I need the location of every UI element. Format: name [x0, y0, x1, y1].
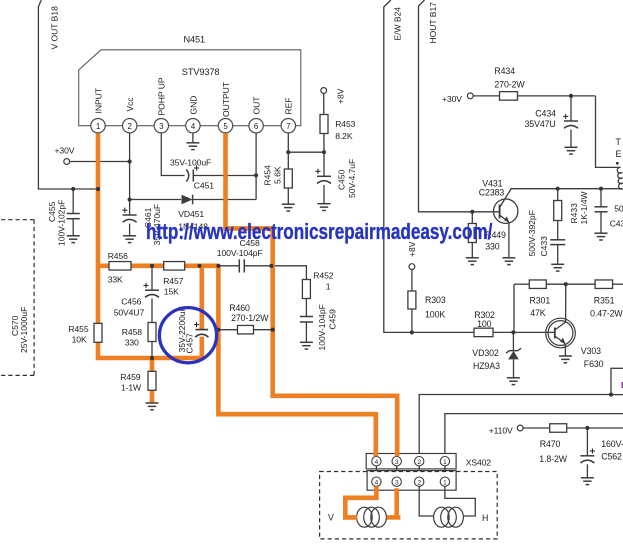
ground C461	[123, 236, 136, 243]
node C458 left (on orange)	[216, 264, 220, 268]
IC pin 2 (Vcc)	[123, 97, 137, 133]
svg-text:1.8-2W: 1.8-2W	[539, 454, 568, 464]
svg-text:1: 1	[326, 282, 331, 292]
svg-text:1: 1	[443, 480, 447, 487]
resistor R452	[271, 266, 333, 317]
svg-text:C450: C450	[337, 169, 347, 190]
wire +30V to Vcc	[70, 161, 130, 163]
ground VD302	[507, 378, 520, 385]
svg-text:Vcc: Vcc	[125, 97, 135, 112]
svg-text:OUT: OUT	[252, 97, 262, 115]
svg-text:N451: N451	[184, 35, 206, 45]
ground R454	[282, 204, 295, 211]
wire XS402 pin2 to module	[419, 395, 611, 457]
wire pin1 highlighted path (orange)	[98, 133, 202, 358]
node C451/pin6 junction	[254, 173, 258, 177]
svg-text:INPUT: INPUT	[93, 88, 103, 114]
ground R459	[146, 403, 159, 410]
svg-text:V: V	[328, 513, 334, 523]
blue highlight circle around C457	[159, 308, 216, 363]
wire XS402 pin1 row	[445, 414, 623, 457]
wire pin5 OUTPUT to XS402 pin3 (orange)	[226, 133, 398, 456]
capacitor C455	[47, 189, 80, 246]
node feedback/C455 junction	[71, 187, 75, 191]
svg-text:100V-102pF: 100V-102pF	[57, 200, 67, 246]
transistor V431	[479, 179, 518, 258]
watermark URL	[146, 220, 493, 245]
svg-text:500V-392pF: 500V-392pF	[527, 210, 537, 256]
node C432 junction	[599, 187, 603, 191]
capacitor C434	[525, 96, 579, 147]
svg-text:2: 2	[417, 480, 421, 487]
svg-text:+8V: +8V	[336, 88, 346, 104]
ground pin4 GND	[186, 133, 199, 149]
connector XS402	[366, 454, 491, 469]
wire connector pin links	[376, 466, 445, 477]
capacitor C433	[527, 210, 565, 264]
svg-text:2: 2	[417, 459, 421, 466]
svg-text:VD302: VD302	[472, 348, 499, 358]
svg-text:5: 5	[223, 122, 228, 131]
svg-text:POHP UP: POHP UP	[157, 77, 167, 115]
resistor R459 (in orange path)	[120, 371, 156, 392]
ground V303 emitter	[559, 356, 572, 363]
wire V303 collector	[565, 284, 567, 322]
svg-text:+30V: +30V	[55, 146, 75, 156]
svg-text:V303: V303	[581, 346, 601, 356]
resistor R454	[263, 152, 293, 204]
node R456/R457 junction (on orange)	[150, 264, 154, 268]
terminal +8V lower	[407, 241, 417, 269]
wire C457 bottom lead (orange)	[200, 337, 205, 358]
svg-text:C456: C456	[121, 297, 141, 307]
label net V OUT B18	[50, 6, 60, 50]
svg-text:R456: R456	[108, 251, 128, 261]
resistor R301	[529, 280, 550, 318]
svg-text:E/W B24: E/W B24	[393, 7, 403, 41]
node R458/R459 junction (on orange)	[150, 356, 154, 360]
V deflection coil	[328, 507, 386, 527]
node C434 junction	[569, 94, 573, 98]
svg-text:R301: R301	[530, 296, 551, 306]
resistor R458	[122, 323, 156, 359]
svg-text:4: 4	[191, 122, 196, 131]
dashed box C570	[0, 220, 34, 376]
svg-text:R459: R459	[120, 372, 140, 382]
ground C562	[581, 478, 594, 485]
capacitor C457	[177, 306, 209, 353]
svg-text:R460: R460	[229, 303, 250, 313]
svg-text:2: 2	[128, 122, 133, 131]
svg-text:100: 100	[477, 319, 492, 329]
ground C433	[551, 264, 564, 271]
svg-text:R351: R351	[594, 296, 615, 306]
ground C459	[300, 342, 313, 349]
wire base row	[412, 331, 514, 333]
capacitor C562	[580, 428, 623, 478]
IC pin 7 (REF)	[281, 98, 295, 133]
svg-text:35V47U: 35V47U	[525, 119, 556, 129]
svg-text:8.2K: 8.2K	[335, 131, 353, 141]
node Vcc/+30V junction	[128, 159, 132, 163]
resistor R351	[590, 280, 623, 319]
node C458 right (on orange)	[269, 264, 273, 268]
wire yoke V path (orange)	[345, 486, 400, 517]
svg-text:R470: R470	[540, 439, 561, 449]
wire pin6 lead	[255, 133, 257, 199]
IC pin 5 (OUTPUT)	[218, 82, 232, 133]
ground C432	[595, 233, 608, 240]
svg-text:0.47-2W: 0.47-2W	[590, 309, 623, 319]
svg-text:+30V: +30V	[442, 94, 462, 104]
svg-text:R453: R453	[335, 119, 355, 129]
svg-text:C433: C433	[539, 236, 549, 257]
wire C458-left to XS402 pin4 (orange)	[218, 266, 375, 456]
node base/VD302 junction	[511, 330, 515, 334]
svg-text:1K-1/4W: 1K-1/4W	[579, 191, 589, 224]
IC pin 4 (GND)	[186, 96, 200, 133]
svg-text:100V-104pF: 100V-104pF	[317, 304, 327, 350]
svg-text:160V-1: 160V-1	[601, 439, 623, 449]
svg-text:25V-1000uF: 25V-1000uF	[19, 307, 29, 353]
resistor R470	[539, 424, 568, 464]
svg-text:3: 3	[395, 480, 399, 487]
node R449 junction	[470, 210, 474, 214]
ground R449	[466, 258, 479, 265]
svg-text:100K: 100K	[425, 310, 445, 320]
svg-text:REF: REF	[284, 98, 294, 115]
resistor R434	[494, 66, 525, 100]
svg-text:100V-104pF: 100V-104pF	[217, 248, 263, 258]
transistor V303	[546, 318, 604, 369]
svg-text:R454: R454	[263, 165, 273, 186]
wire V OUT feedback line from pin B18	[38, 0, 98, 189]
svg-text:R433: R433	[569, 203, 579, 224]
svg-text:6: 6	[254, 122, 259, 131]
capacitor C451	[170, 158, 256, 191]
wire H yoke path	[419, 486, 475, 516]
terminal +30V right	[442, 93, 473, 104]
svg-text:H: H	[482, 513, 488, 523]
svg-text:STV9378: STV9378	[182, 67, 220, 77]
node C562 junction	[585, 426, 589, 430]
svg-text:+110V: +110V	[489, 425, 513, 435]
svg-text:4: 4	[375, 459, 379, 466]
terminal +8V	[321, 88, 346, 104]
wire base to V303	[513, 331, 554, 333]
resistor R302	[474, 310, 495, 337]
node R457 right (on orange)	[197, 264, 201, 268]
svg-text:HOUT B17: HOUT B17	[428, 2, 438, 44]
node feedback junction (on orange)	[96, 187, 100, 191]
resistor R456 body	[108, 251, 131, 285]
svg-text:270-1/2W: 270-1/2W	[231, 313, 269, 323]
svg-text:C451: C451	[194, 181, 214, 191]
svg-text:C562: C562	[601, 452, 622, 462]
svg-text:R458: R458	[122, 327, 142, 337]
svg-text:35V-100uF: 35V-100uF	[170, 158, 211, 168]
svg-text:C432: C432	[610, 219, 623, 229]
svg-text:7: 7	[286, 122, 291, 131]
wire to transformer T	[596, 96, 621, 167]
zener diode VD302	[472, 332, 521, 377]
svg-text:330: 330	[125, 337, 139, 347]
capacitor C458	[217, 238, 263, 273]
wire E/W B24 line	[384, 0, 412, 332]
svg-text:1-1W: 1-1W	[121, 383, 142, 393]
svg-text:50V4U7: 50V4U7	[114, 307, 145, 317]
svg-text:OUTPUT: OUTPUT	[221, 82, 231, 117]
svg-text:1: 1	[443, 459, 447, 466]
svg-text:33K: 33K	[108, 275, 123, 285]
node R456/R457 junction	[150, 264, 154, 268]
svg-text:5.6K: 5.6K	[273, 166, 283, 184]
wire R459 branch (orange)	[150, 358, 155, 403]
wire C457 top lead (orange)	[200, 266, 205, 330]
svg-text:F630: F630	[584, 359, 604, 369]
IC pin 6 (OUT)	[249, 97, 263, 133]
svg-text:1: 1	[96, 122, 101, 131]
ground V431 emitter	[502, 258, 515, 265]
module box (cut at edge)	[611, 368, 623, 394]
svg-text:C434: C434	[535, 108, 556, 118]
svg-text:R434: R434	[494, 66, 515, 76]
node R460 left (on orange)	[216, 328, 220, 332]
dashed yoke box	[320, 472, 498, 539]
svg-text:10K: 10K	[72, 334, 87, 344]
label net HOUT B17	[428, 2, 438, 44]
capacitor C432	[595, 189, 623, 234]
label net E/W B24	[393, 7, 403, 41]
IC pin 3 (POHP UP)	[154, 77, 168, 133]
capacitor C459	[300, 304, 338, 350]
svg-text:R452: R452	[313, 270, 333, 280]
svg-text:http://www.electronicsrepairma: http://www.electronicsrepairmadeasy.com/	[146, 220, 493, 245]
node module junction	[609, 393, 613, 397]
svg-text:C457: C457	[184, 333, 194, 354]
node R433 junction	[556, 187, 560, 191]
wire R301 row	[514, 284, 623, 332]
ground C434	[565, 147, 578, 154]
svg-text:C2383: C2383	[479, 188, 505, 198]
svg-text:V OUT B18: V OUT B18	[50, 6, 60, 50]
IC N451 outline	[79, 35, 301, 126]
svg-text:R457: R457	[163, 276, 183, 286]
H deflection coil	[434, 507, 489, 527]
wire C458 leads	[218, 265, 271, 267]
node V303 collector junction	[564, 282, 568, 286]
wire +110V row	[523, 427, 623, 429]
IC pin 1 (INPUT)	[91, 88, 105, 133]
ground C455	[67, 236, 80, 243]
node R457 right	[197, 264, 201, 268]
capacitor C456	[114, 266, 159, 323]
wire pin7 REF lead	[288, 133, 324, 152]
node R453/C450	[322, 150, 326, 154]
node diode anode junction	[128, 197, 132, 201]
svg-text:C459: C459	[327, 309, 337, 330]
node pin7/R454	[286, 150, 290, 154]
resistor R303	[408, 270, 446, 333]
resistor R457 body	[163, 262, 185, 297]
svg-text:GND: GND	[188, 96, 198, 115]
node C458 left	[216, 264, 220, 268]
wire +30V row	[473, 95, 595, 97]
svg-text:4: 4	[375, 480, 379, 487]
terminal +110V	[489, 425, 523, 435]
resistor R453	[320, 93, 356, 152]
svg-text:270-2W: 270-2W	[494, 80, 525, 90]
svg-text:C455: C455	[47, 201, 57, 222]
svg-text:T: T	[616, 137, 622, 147]
resistor R460	[218, 303, 272, 334]
connector yoke plug	[367, 471, 456, 491]
svg-text:50: 50	[614, 204, 623, 214]
wire HOUT B17 line	[419, 0, 500, 212]
wire V431 collector row	[511, 188, 623, 190]
svg-text:E: E	[616, 149, 622, 159]
svg-text:R455: R455	[68, 324, 88, 334]
transformer winding (cut at edge)	[616, 137, 623, 189]
resistor R449	[468, 212, 506, 258]
node C458 right / pin5 wire	[269, 264, 273, 268]
svg-text:15K: 15K	[164, 287, 179, 297]
ground C450	[318, 204, 331, 211]
resistor R455 (in orange path)	[68, 323, 102, 344]
svg-text:VD451: VD451	[178, 209, 204, 219]
svg-text:3: 3	[395, 459, 399, 466]
terminal +30V left	[55, 146, 75, 165]
node R303/R302/E-W junction	[410, 330, 414, 334]
svg-text:HZ9A3: HZ9A3	[473, 361, 500, 371]
svg-text:XS402: XS402	[466, 458, 492, 468]
svg-text:47K: 47K	[530, 308, 546, 318]
svg-text:R303: R303	[425, 295, 446, 305]
capacitor C461	[122, 204, 162, 246]
diode VD451	[130, 195, 257, 232]
capacitor C450	[315, 152, 356, 204]
resistor R433	[554, 189, 590, 240]
svg-text:50V-4.7uF: 50V-4.7uF	[347, 159, 357, 198]
svg-text:3: 3	[159, 122, 164, 131]
wire pin2 Vcc lead	[129, 133, 131, 206]
wire R456 row (orange)	[98, 263, 218, 268]
wire pin3 lead	[161, 133, 184, 175]
node R460 right (on orange)	[271, 328, 275, 332]
